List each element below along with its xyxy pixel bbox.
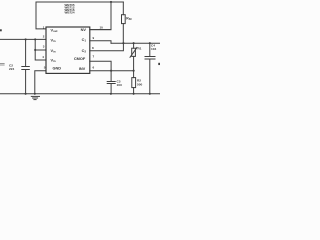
node ground rail junction xyxy=(34,93,36,95)
wire pin 6 INV stub feedback xyxy=(90,69,134,73)
svg-text:Vin: Vin xyxy=(51,48,56,54)
svg-text:INV: INV xyxy=(79,66,86,71)
svg-text:224: 224 xyxy=(9,67,14,71)
value label C4 104 xyxy=(151,44,156,51)
pin 7 label xyxy=(93,55,95,59)
svg-text:103: 103 xyxy=(117,83,122,87)
part numbers WB705 WB712 WB716 WB724 xyxy=(65,3,75,15)
node output to C4 xyxy=(149,42,151,44)
wire pin 5 GND down xyxy=(35,71,46,94)
svg-text:2: 2 xyxy=(43,35,45,39)
svg-text:10: 10 xyxy=(100,26,104,30)
wire Vin bus vertical pins 3 and 4 xyxy=(35,39,46,60)
node left edge label fragment xyxy=(0,64,4,65)
wire pin 9 C1 stub to output line xyxy=(90,41,111,44)
wire pin 10 NV stub xyxy=(90,28,111,32)
pin 1 label xyxy=(43,25,45,29)
node Rsc to output line xyxy=(122,42,124,44)
wire output line xyxy=(111,41,160,45)
svg-text:Vout: Vout xyxy=(51,27,58,33)
svg-text:4: 4 xyxy=(42,55,44,59)
svg-text:RSC: RSC xyxy=(126,17,132,22)
node input to C2 xyxy=(25,38,27,40)
svg-text:WB724: WB724 xyxy=(65,11,75,15)
svg-text:7: 7 xyxy=(93,55,95,59)
IC pin name C2 xyxy=(82,48,87,54)
value label R1 xyxy=(138,47,142,51)
svg-text:R1: R1 xyxy=(138,47,142,51)
svg-text:Vin: Vin xyxy=(51,57,56,63)
svg-text:CMOF: CMOF xyxy=(74,56,86,61)
IC pin name GND xyxy=(53,66,62,71)
node output terminal mark xyxy=(158,63,160,65)
capacitor C4 xyxy=(145,43,155,94)
pin 6 label xyxy=(93,66,95,70)
node feedback to divider xyxy=(133,70,135,72)
IC pin name Vin pin4 xyxy=(51,57,56,63)
pin 3 label xyxy=(43,45,45,49)
IC pin name CMOF xyxy=(74,56,86,61)
pin 4 label xyxy=(42,55,44,59)
svg-text:GND: GND xyxy=(53,66,62,71)
value label C2 224 xyxy=(9,64,14,71)
svg-text:6: 6 xyxy=(93,66,95,70)
node C2 to ground rail xyxy=(25,93,27,95)
value label C3 103 xyxy=(117,80,122,87)
node pin 3 junction xyxy=(34,49,36,51)
svg-text:C1: C1 xyxy=(82,37,87,43)
resistor R1 potentiometer xyxy=(130,43,137,77)
node R2 to ground rail xyxy=(133,93,135,95)
svg-text:C2: C2 xyxy=(82,48,87,54)
svg-text:R2: R2 xyxy=(137,78,141,82)
node input to Vin bus xyxy=(34,38,36,40)
IC pin name INV xyxy=(79,66,86,71)
pin 8 label xyxy=(92,46,94,50)
svg-text:NV: NV xyxy=(81,27,87,32)
svg-text:3: 3 xyxy=(43,45,45,49)
value label R2 500 xyxy=(137,78,142,86)
capacitor C3 xyxy=(107,82,115,94)
resistor Rsc xyxy=(122,2,126,43)
wire pin 8 C2 stub xyxy=(90,43,124,51)
svg-text:9: 9 xyxy=(93,36,95,40)
node input terminal mark xyxy=(0,29,2,31)
node output to R1 xyxy=(133,42,135,44)
pin 2 label xyxy=(43,35,45,39)
IC pin name Vin pin2 xyxy=(51,38,56,44)
wire bottom ground rail xyxy=(0,92,160,96)
IC pin name C1 xyxy=(82,37,87,43)
capacitor C2 xyxy=(22,39,30,93)
pin 5 label xyxy=(44,66,46,70)
svg-text:8: 8 xyxy=(92,46,94,50)
IC pin name NV xyxy=(81,27,87,32)
svg-text:104: 104 xyxy=(151,47,156,51)
IC pin name Vout xyxy=(51,27,58,33)
pin 10 label xyxy=(100,26,104,30)
node C4 to ground rail xyxy=(149,93,151,95)
value label Rsc xyxy=(126,17,132,22)
svg-text:Vin: Vin xyxy=(51,38,56,44)
node C3 to ground rail xyxy=(110,93,112,95)
wire pin 3 stub xyxy=(35,48,46,52)
wire left vertical Vout bus to pin 1 xyxy=(36,2,46,29)
wire pin 7 CMOF stub down to C3 xyxy=(90,61,111,81)
wire input line to pin 2 xyxy=(0,37,46,41)
op-amp U1 regulator IC body xyxy=(46,27,90,73)
node top junction to NV xyxy=(110,1,112,3)
wire NV riser xyxy=(90,2,111,30)
IC pin name Vin pin3 xyxy=(51,48,56,54)
resistor R2 xyxy=(132,78,136,94)
svg-text:500: 500 xyxy=(137,83,142,87)
wire top output bus xyxy=(36,0,123,4)
pin 9 label xyxy=(93,36,95,40)
node INV crossing C3 riser xyxy=(110,70,112,72)
ground xyxy=(31,96,39,99)
